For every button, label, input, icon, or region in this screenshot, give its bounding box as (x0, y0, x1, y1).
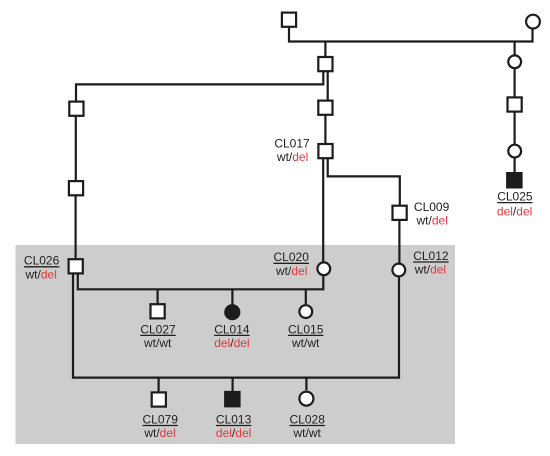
female circle gen I (top right of couple) (526, 15, 540, 29)
male square gen I (top left of couple) (282, 13, 296, 27)
svg-text:del/del: del/del (216, 426, 251, 440)
male square CL027 (151, 304, 165, 318)
male square right chain (508, 97, 522, 111)
wire: right-chain square down to right-chain circle (513, 112, 515, 144)
wire: drop from top bar to square II-left (324, 42, 326, 58)
svg-text:wt/del: wt/del (275, 264, 307, 278)
female circle CL015 (299, 305, 312, 318)
svg-text:CL014: CL014 (214, 322, 250, 336)
wire: left chain square down to lower-left square (75, 116, 77, 180)
wire: drop sibship1 to CL027 (157, 289, 159, 304)
female circle CL020 (317, 262, 330, 275)
svg-text:CL013: CL013 (216, 412, 252, 426)
wire: drop sibship2 to CL079 (158, 378, 160, 392)
male square gen III middle (318, 101, 332, 115)
wire: CL026 right descent, sibship line 1, up to CL020 (78, 274, 323, 289)
svg-text:CL025: CL025 (497, 189, 533, 203)
wire: drop sibship2 to CL028 (305, 378, 307, 391)
svg-text:CL020: CL020 (274, 250, 310, 264)
male square CL009 (393, 206, 407, 220)
svg-text:del/del: del/del (497, 205, 532, 219)
wire: square II-left descent, left turn to left chain top square (76, 71, 323, 101)
svg-text:CL026: CL026 (24, 254, 60, 268)
male square CL079 (152, 392, 166, 406)
svg-text:del/del: del/del (214, 336, 249, 350)
wire: CL026 left descent, sibship line 2, up to CL012 (73, 274, 399, 378)
male square left-chain top (69, 102, 83, 116)
wire: CL017 branch right and down to CL009 (328, 159, 400, 206)
svg-text:CL009: CL009 (414, 200, 450, 214)
wire: circle II-right down to right-chain square (513, 69, 515, 97)
affected male filled square CL025 (506, 172, 522, 189)
wire: drop from top bar to circle II-right (513, 42, 515, 56)
gray highlight box (nuclear family shading) (16, 245, 456, 444)
svg-text:CL017: CL017 (274, 137, 310, 151)
wire: square II-left descent to square III-middle (327, 71, 329, 100)
affected male filled square CL013 (224, 391, 241, 408)
wire: top couple bar (gen I square to gen I circle) (289, 27, 533, 41)
svg-text:wt/del: wt/del (143, 426, 175, 440)
wire: drop sibship1 to CL015 (305, 289, 307, 304)
male square CL017 (318, 144, 332, 158)
svg-text:wt/del: wt/del (416, 213, 448, 227)
svg-text:wt/del: wt/del (276, 150, 308, 164)
svg-text:wt/wt: wt/wt (293, 426, 322, 440)
svg-text:wt/wt: wt/wt (143, 336, 172, 350)
affected female filled circle CL014 (224, 304, 240, 320)
female circle gen II right (508, 55, 521, 68)
wire: right-chain circle down to CL025 (513, 158, 515, 173)
female circle CL028 (299, 392, 313, 406)
female circle right chain (508, 145, 521, 158)
male square left-chain lower (69, 181, 83, 195)
svg-text:wt/del: wt/del (414, 263, 446, 277)
female circle CL012 (392, 264, 405, 277)
svg-text:CL015: CL015 (288, 322, 324, 336)
wire: lower-left square down to CL026 (74, 196, 76, 259)
svg-text:wt/del: wt/del (25, 267, 57, 281)
male square CL026 (69, 259, 83, 273)
svg-text:CL028: CL028 (290, 412, 326, 426)
wire: square III-middle down to CL017 (324, 115, 326, 144)
wire: CL009 down to circle CL012 (398, 220, 400, 263)
wire: drop sibship2 to CL013 (232, 378, 234, 392)
svg-text:CL012: CL012 (413, 249, 449, 263)
wire: drop sibship1 to CL014 (231, 289, 233, 304)
wire: CL017 descent down to circle CL020 (322, 159, 324, 262)
svg-text:wt/wt: wt/wt (291, 336, 320, 350)
male square gen II left (318, 57, 332, 71)
svg-text:CL027: CL027 (140, 322, 176, 336)
svg-text:CL079: CL079 (143, 412, 179, 426)
